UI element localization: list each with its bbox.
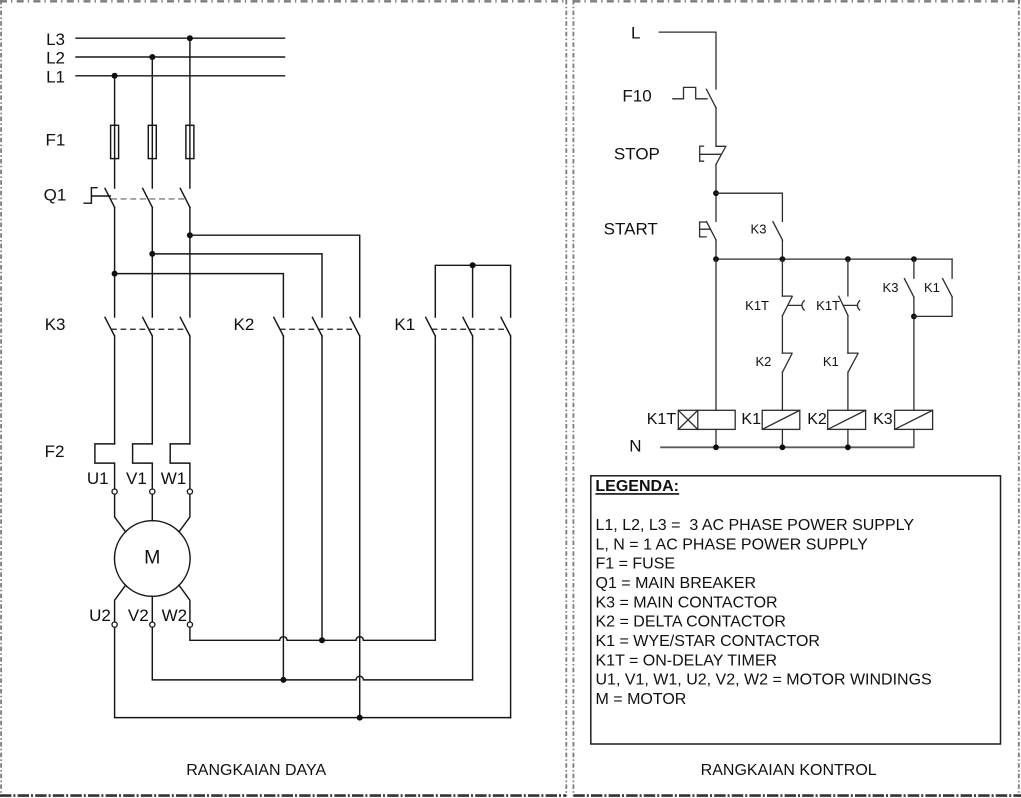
svg-text:L2: L2 [46,49,65,68]
fuse F1 pole 1 [111,125,119,158]
fuse breaker F10 blade [706,89,716,108]
breaker Q1 mechanical link (dashed) [111,198,185,200]
wire K1 interlock to K2 coil [847,372,849,410]
wire K3 seal down to K3 coil [911,297,917,410]
timed contact K1T NC (opens after delay) [782,296,804,316]
svg-text:K2: K2 [755,354,771,369]
wire bus to K1T NO timed contact [847,259,849,296]
wire Q1 pole 3 to K3 pole 3 [189,207,191,317]
motor M [115,521,191,597]
motor terminal U2 [89,606,117,627]
contact K3 holding NO [773,222,783,241]
wire K3 pole 3 to overload F2 [189,336,191,444]
motor terminal V2 [128,606,155,627]
wire K3 pole 1 to overload F2 [114,336,116,444]
svg-text:K1: K1 [924,280,940,295]
wire K2 coil to N [847,429,849,447]
wire K1 coil to N [781,429,783,447]
fuse breaker F10 thermal element [673,87,707,98]
wire K2 interlock to K1 coil [781,372,783,410]
wire K1 pole 2 down to V2 net [472,336,474,680]
fuse F1 pole 2 [148,125,156,158]
contactor K1 pole 1 [426,317,436,336]
svg-text:K3: K3 [883,280,899,295]
wire START to bus [715,240,717,259]
contactor K2 pole 3 [350,317,360,336]
seal contact K3 NO [904,279,914,298]
svg-text:RANGKAIAN KONTROL: RANGKAIAN KONTROL [701,762,877,779]
wire bus to K1T NC timed contact [781,259,783,296]
wire W1 to motor [179,494,190,532]
timer coil K1T [678,410,735,429]
svg-text:W2: W2 [162,606,188,625]
motor terminal U1 [87,469,117,494]
net N [629,436,914,455]
svg-text:F1: F1 [45,131,65,150]
seal contact K1 NO [943,279,953,297]
svg-text:K1T: K1T [647,411,677,428]
svg-text:K2: K2 [234,315,255,334]
contactor coil K1 [762,410,800,429]
svg-text:U1, V1, W1, U2, V2, W2 = MOTOR: U1, V1, W1, U2, V2, W2 = MOTOR WINDINGS [596,672,932,689]
net L3 [46,30,284,49]
contactor K2 pole 1 [274,317,284,336]
wire W2 to K1 pole 1 (with crossover hops) [190,627,435,643]
overload relay F2 element 2 [133,444,153,489]
svg-text:M = MOTOR: M = MOTOR [596,691,687,708]
wire branch to K3 holding contact [716,193,782,221]
svg-text:M: M [144,547,160,569]
wire L1 down to Q1 pole 1 [114,76,116,188]
wire K1T NO to K1 interlock [847,316,849,354]
svg-text:U1: U1 [87,469,109,488]
svg-text:N: N [629,436,641,455]
wire U1 to motor [115,494,126,532]
svg-text:V1: V1 [126,469,147,488]
wire U2 to K1 pole 3 [115,627,511,720]
wire L2 down to Q1 pole 2 [151,57,153,188]
contactor coil K3 [895,410,933,429]
svg-text:U2: U2 [89,606,111,625]
svg-text:K1: K1 [741,411,761,428]
breaker Q1 pole 1 blade [105,188,115,207]
net L2 [46,49,284,68]
pushbutton STOP NC contact [716,146,726,164]
contactor K3 pole 3 [180,317,190,336]
svg-text:K3: K3 [45,315,66,334]
contactor K3 pole 1 [105,317,115,336]
wire V2 to K1 pole 2 (with crossover hop) [152,627,472,683]
wire K1 seal back to K3 branch [914,297,952,317]
svg-text:K2: K2 [807,411,827,428]
svg-text:K1 = WYE/STAR CONTACTOR: K1 = WYE/STAR CONTACTOR [596,633,820,650]
wire STOP to START [715,164,717,221]
interlock contact K1 NC [848,353,858,372]
timed contact K1T NO (closes after delay) [839,296,860,315]
pushbutton START actuator [700,222,711,237]
wire branch phase2 to K2 pole 2 [149,251,322,317]
wire K1 pole 1 down to W2 net [434,336,436,640]
wire L3 down to Q1 pole 3 [189,38,191,188]
svg-text:RANGKAIAN DAYA: RANGKAIAN DAYA [186,762,326,779]
wire K3 coil to N [913,429,915,447]
breaker Q1 manual handle [84,188,110,204]
svg-text:K1T = ON-DELAY TIMER: K1T = ON-DELAY TIMER [596,652,778,669]
svg-text:L: L [631,24,640,43]
wire V1 to motor [151,494,153,521]
legend title LEGENDA [595,478,679,495]
svg-text:W1: W1 [161,469,187,488]
wire bus down to K1T coil [715,259,717,410]
contactor K3 link (dashed) [111,328,185,330]
breaker Q1 pole 2 blade [143,188,153,207]
wire motor to U2 [115,585,126,622]
svg-text:L, N = 1 AC PHASE POWER SUPPLY: L, N = 1 AC PHASE POWER SUPPLY [596,536,869,553]
contactor K3 pole 2 [143,317,153,336]
svg-text:STOP: STOP [614,145,660,164]
interlock contact K2 NC [782,353,792,372]
motor terminal V1 [126,469,155,494]
pushbutton START NO contact [707,222,717,241]
svg-text:Q1 = MAIN BREAKER: Q1 = MAIN BREAKER [596,575,757,592]
wire motor to V2 [151,596,153,622]
wire Q1 pole 1 to K3 pole 1 [114,207,116,317]
svg-text:V2: V2 [128,606,149,625]
contactor K1 pole 3 [501,317,511,336]
breaker Q1 pole 3 blade [180,188,190,207]
wire bus to K3 seal contact [913,259,915,278]
net L [631,24,716,89]
contactor K2 pole 2 [312,317,322,336]
contactor K1 link (dashed) [432,328,506,330]
motor terminal W2 [162,606,193,627]
svg-text:K3 = MAIN CONTACTOR: K3 = MAIN CONTACTOR [596,594,778,611]
svg-text:Q1: Q1 [44,185,67,204]
node after STOP [713,190,719,196]
wire K3 holding to bus [781,240,783,259]
svg-text:K3: K3 [751,222,767,237]
svg-text:K1T: K1T [745,298,769,313]
wire K1 pole 3 down to U2 net [510,336,512,718]
svg-text:K1: K1 [823,354,839,369]
wire K1T NC to K2 interlock [781,316,783,354]
bus wire after START [713,256,952,262]
svg-text:F2: F2 [45,442,65,461]
svg-text:F10: F10 [622,86,651,105]
motor terminal W1 [161,469,193,494]
svg-text:L1: L1 [46,67,65,86]
svg-text:START: START [604,220,658,239]
svg-text:L1, L2, L3 = 3 AC PHASE POWER: L1, L2, L3 = 3 AC PHASE POWER SUPPLY [596,517,915,534]
contactor K2 link (dashed) [280,328,355,330]
wire K2 pole 3 down to U2 net [359,336,361,718]
wire branch phase1 to K2 pole 1 [112,271,284,317]
wire K2 pole 1 down to V2 net [282,336,284,680]
overload relay F2 element 3 [170,444,190,489]
overload relay F2 element 1 [95,444,115,489]
wire K2 pole 2 down to W2 net [321,336,323,640]
contactor coil K2 [828,410,866,429]
svg-text:K2 = DELTA CONTACTOR: K2 = DELTA CONTACTOR [596,614,786,631]
pushbutton STOP actuator [700,146,721,161]
svg-text:K1T: K1T [816,298,840,313]
net L1 [46,67,284,86]
svg-text:K1: K1 [394,315,415,334]
wire K1T coil to N [715,429,717,447]
RIGHT PANEL BORDER (decorative frame) [573,0,1021,2]
wire star-point bar of K1 [435,262,510,317]
wire branch phase3 to K2 pole 3 [187,232,360,317]
svg-text:L3: L3 [46,30,65,49]
wire Q1 pole 2 to K3 pole 2 [151,207,153,317]
LEFT PANEL BORDER (decorative frame) [0,0,566,2]
svg-text:LEGENDA:: LEGENDA: [595,478,679,495]
contactor K1 pole 2 [463,317,473,336]
legend box [591,476,1001,744]
fuse F1 pole 3 [186,125,194,158]
wire motor to W2 [179,585,190,622]
svg-text:F1 = FUSE: F1 = FUSE [596,556,676,573]
svg-text:K3: K3 [873,411,893,428]
wire K3 pole 2 to overload F2 [151,336,153,444]
wire F10 to STOP [715,108,717,146]
wire bus corner to K1 seal contact [951,259,953,278]
